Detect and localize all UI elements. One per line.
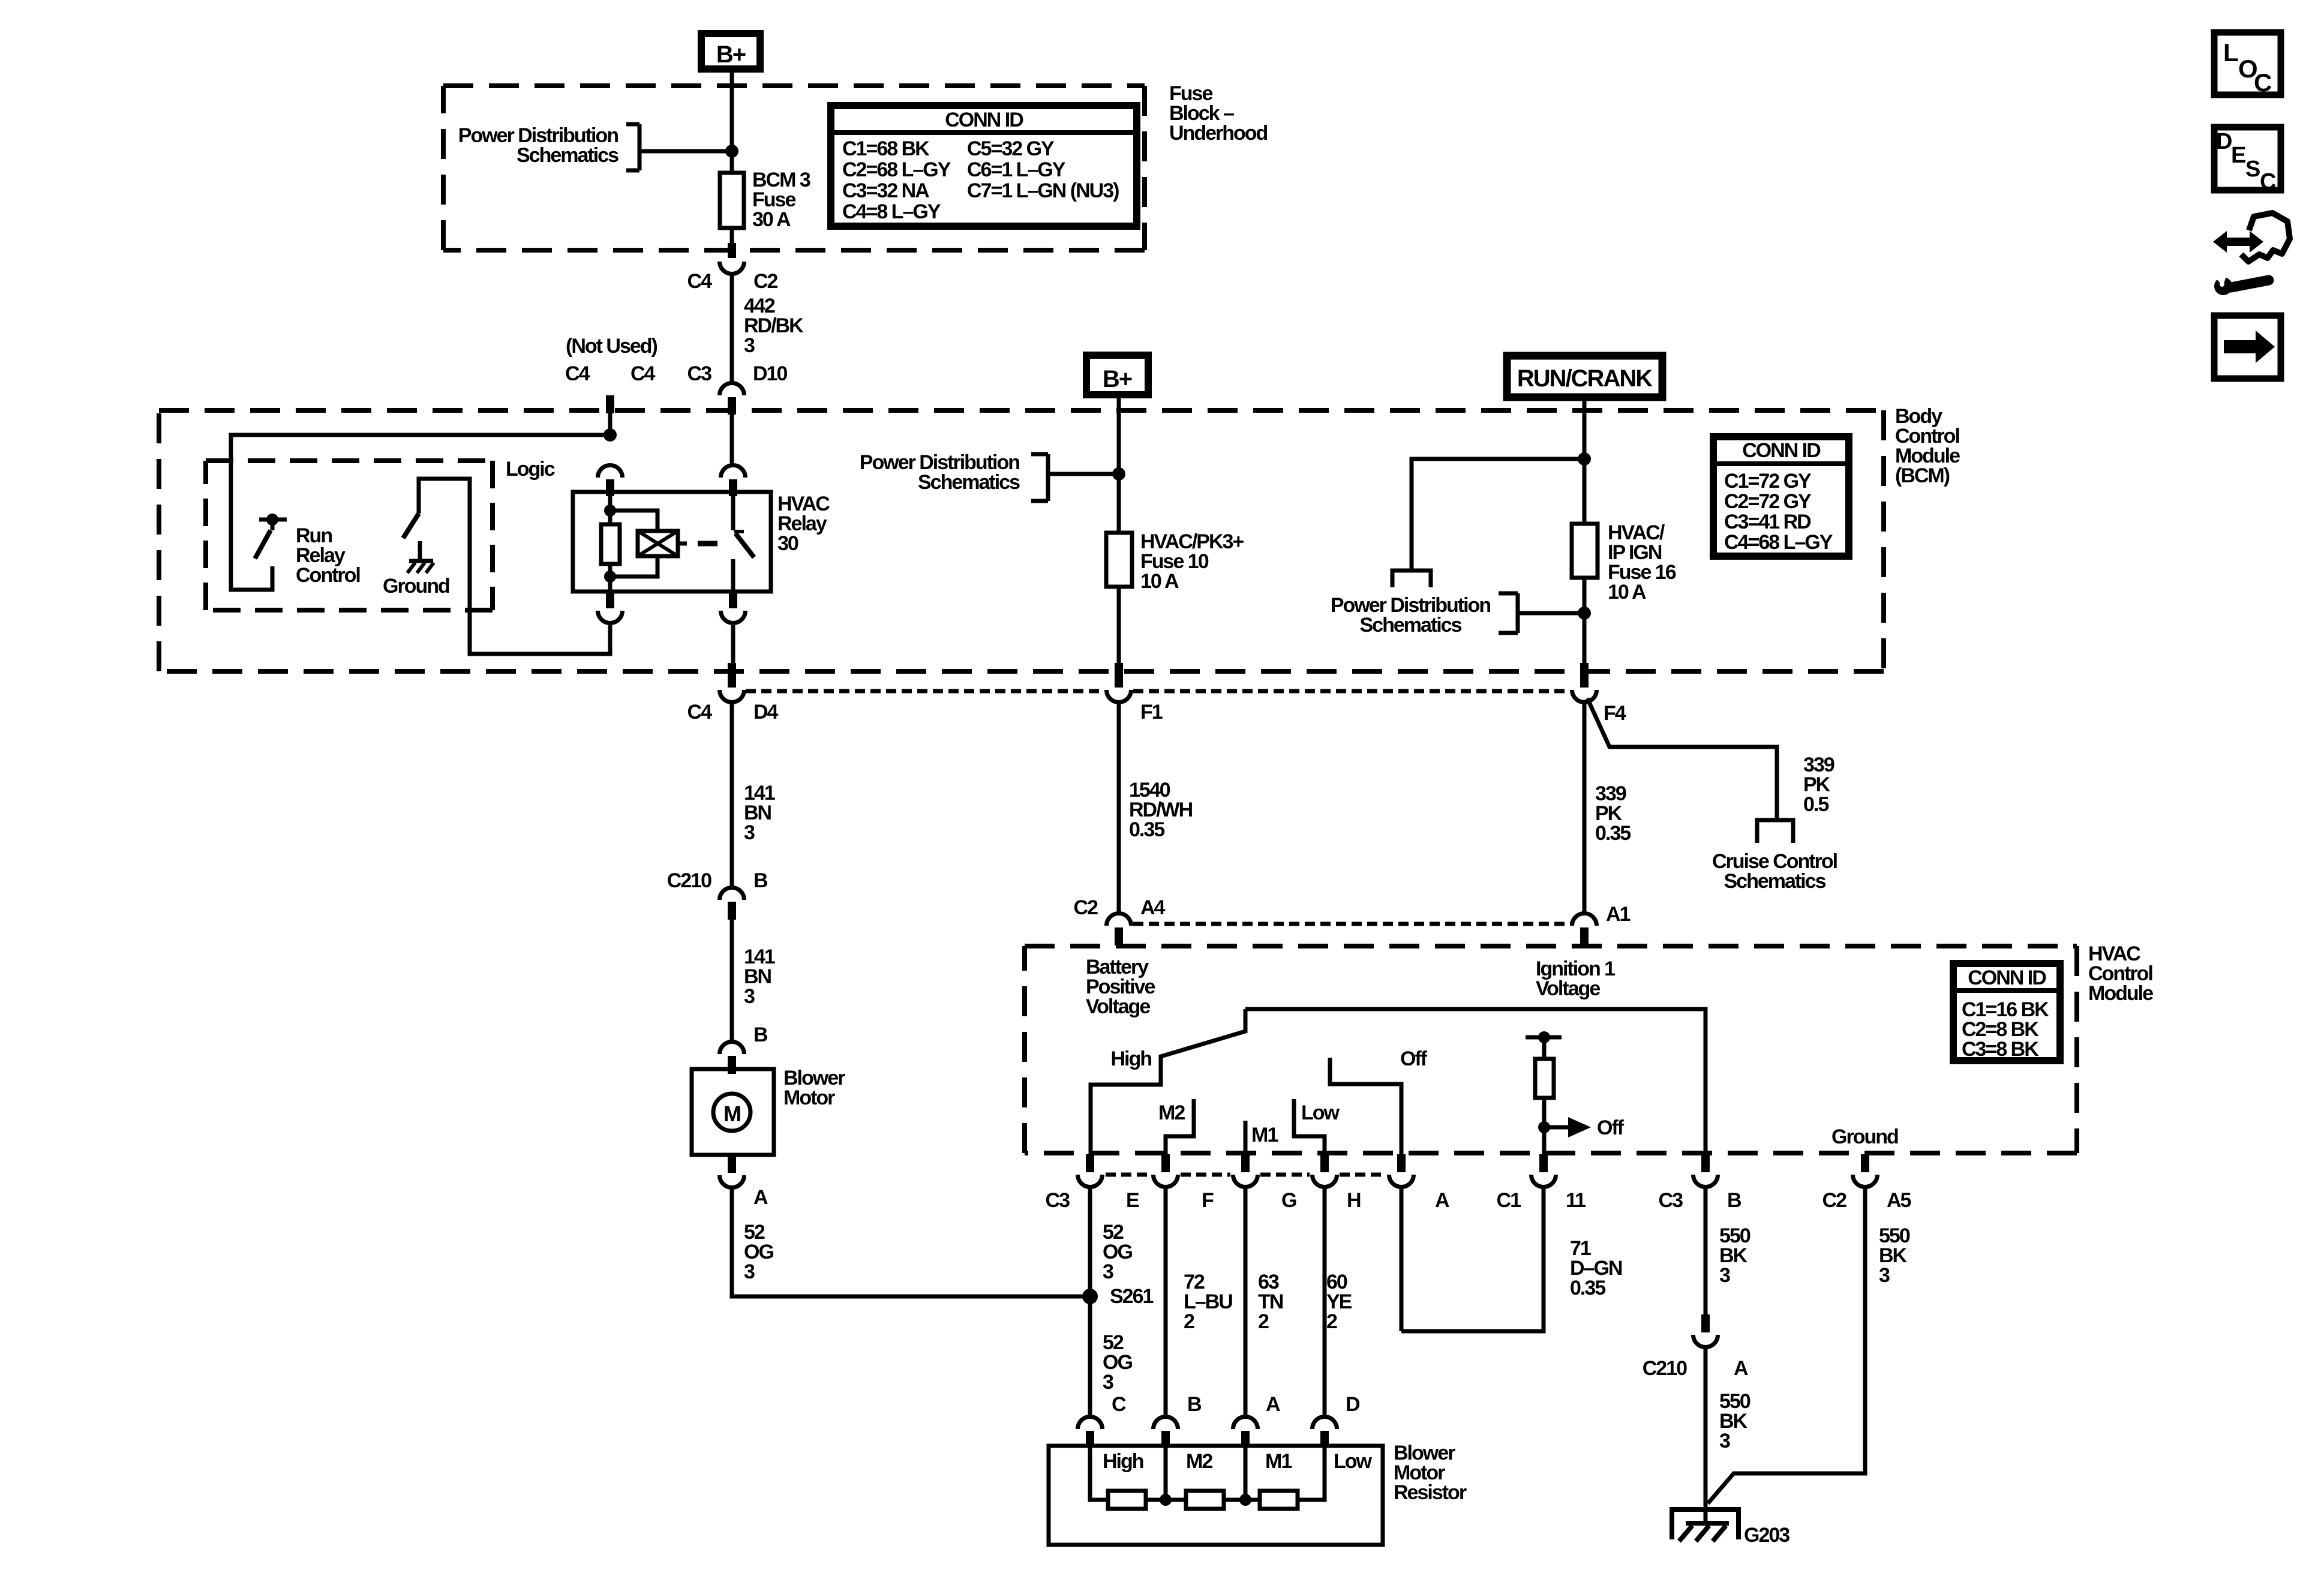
relay HVAC Relay 30: [573, 492, 771, 592]
svg-text:C4=68 L–GY: C4=68 L–GY: [1724, 531, 1833, 554]
svg-text:Schematics: Schematics: [1360, 614, 1462, 637]
svg-text:M1: M1: [1265, 1450, 1292, 1473]
connector C2/A4 (HVAC battery feed): [1107, 913, 1131, 926]
connector C210/A: [1701, 1314, 1710, 1332]
connector C4/C2 (fuse block output): [728, 243, 736, 258]
svg-text:G203: G203: [1744, 1524, 1789, 1547]
svg-text:C4: C4: [630, 362, 656, 385]
connector relay switch bottom: [729, 592, 737, 608]
svg-text:10 A: 10 A: [1140, 570, 1179, 593]
connector C3/D10 (BCM input): [720, 383, 744, 395]
wire D10 into relay switch: [730, 415, 734, 465]
svg-text:30: 30: [777, 532, 798, 555]
svg-text:3: 3: [744, 334, 755, 357]
svg-text:3: 3: [744, 985, 755, 1008]
connector D (blower motor resistor): [1313, 1416, 1337, 1429]
svg-text:3: 3: [744, 821, 755, 844]
connector pin 11 (HVAC): [1539, 1154, 1548, 1172]
contact M2: [1166, 1099, 1194, 1155]
CONN ID table (HVAC): [1953, 963, 2060, 1061]
wire bracket to B+ feed node: [639, 149, 732, 154]
svg-text:(BCM): (BCM): [1895, 464, 1950, 487]
icon service info (arrows and wrench): [2213, 231, 2263, 253]
svg-text:C1=72 GY: C1=72 GY: [1724, 470, 1812, 493]
svg-text:2: 2: [1184, 1310, 1194, 1333]
relay switch contacts: [731, 496, 735, 530]
svg-text:C6=1 L–GY: C6=1 L–GY: [967, 158, 1066, 181]
svg-text:A: A: [1266, 1393, 1280, 1416]
svg-text:RUN/CRANK: RUN/CRANK: [1517, 365, 1653, 392]
wire 550 BK 3 (B to C210): [1704, 1187, 1708, 1316]
HVAC top connector dotted row: [1133, 922, 1571, 926]
connector relay coil top: [598, 465, 623, 478]
svg-text:0.35: 0.35: [1129, 818, 1164, 841]
svg-text:C: C: [2254, 68, 2272, 97]
power symbol B+ (BCM feed): [1086, 355, 1148, 395]
contact Low: [1294, 1099, 1325, 1155]
connector C4/D4 (BCM output): [728, 663, 736, 688]
svg-text:High: High: [1110, 1047, 1151, 1070]
svg-text:A: A: [753, 1186, 768, 1209]
svg-text:C4=8 L–GY: C4=8 L–GY: [842, 200, 941, 223]
svg-text:Off: Off: [1597, 1116, 1625, 1139]
ground G203: [1672, 1509, 1739, 1539]
svg-text:3: 3: [1103, 1260, 1113, 1283]
svg-text:3: 3: [1719, 1264, 1730, 1287]
svg-text:A1: A1: [1606, 903, 1631, 926]
HVAC bottom connector dotted row: [1106, 1173, 1386, 1177]
connector pin A (HVAC): [1397, 1154, 1406, 1172]
svg-text:C: C: [1112, 1393, 1126, 1416]
wire 550 BK 3 (A5 leg): [1708, 1187, 1865, 1503]
wire fuse to F4: [1583, 578, 1587, 665]
CONN ID table (fuse block): [831, 106, 1137, 226]
svg-text:C1=68 BK: C1=68 BK: [842, 137, 930, 160]
svg-text:Low: Low: [1301, 1101, 1340, 1124]
wire 1540 RD/WH 0.35: [1117, 704, 1121, 913]
switch wiper High: [1091, 1009, 1245, 1155]
CONN ID table (BCM): [1713, 437, 1849, 556]
BCM dashed box: [159, 410, 1884, 671]
svg-text:2: 2: [1326, 1310, 1337, 1333]
wire B+ to fuse block: [730, 73, 734, 173]
svg-text:C4: C4: [687, 701, 713, 724]
bracket power distribution (down-open): [1392, 571, 1431, 587]
relay mechanical link dash: [698, 541, 717, 547]
connector pin E (HVAC): [1086, 1154, 1094, 1172]
svg-text:C5=32 GY: C5=32 GY: [967, 137, 1055, 160]
relay coil winding branch: [610, 511, 657, 577]
wire fuse to F1: [1117, 587, 1121, 665]
svg-text:3: 3: [1879, 1264, 1890, 1287]
svg-text:D4: D4: [753, 701, 779, 724]
svg-text:C4: C4: [565, 362, 590, 385]
svg-text:3: 3: [1719, 1430, 1730, 1452]
svg-text:B: B: [1187, 1393, 1202, 1416]
node RUN/CRANK junction: [1578, 452, 1591, 466]
connector A (blower motor): [728, 1155, 736, 1173]
svg-text:(Not Used): (Not Used): [566, 335, 657, 358]
svg-text:C3: C3: [687, 362, 712, 385]
node run relay control junction: [603, 428, 617, 442]
wire fuse to connector C4/C2: [730, 228, 734, 244]
wire not-used stub to run relay control node: [608, 413, 612, 435]
svg-text:Control: Control: [296, 564, 360, 587]
bracket cruise control (down-open): [1757, 820, 1793, 843]
icon LOC box: [2214, 32, 2281, 95]
wire 141 BN 3 to blower motor: [730, 920, 734, 1041]
connector B (blower motor resistor): [1154, 1416, 1178, 1429]
svg-text:H: H: [1347, 1189, 1361, 1212]
svg-text:30 A: 30 A: [752, 208, 791, 231]
node off tap: [1538, 1121, 1550, 1133]
svg-text:G: G: [1281, 1189, 1296, 1212]
svg-text:Schematics: Schematics: [1724, 870, 1826, 893]
icon arrow box: [2214, 316, 2281, 379]
wire 339 PK 0.35: [1583, 704, 1587, 913]
svg-text:C2: C2: [753, 270, 778, 293]
BCM connector interface dotted row: [746, 689, 1570, 694]
svg-text:CONN ID: CONN ID: [1742, 439, 1821, 462]
power symbol RUN/CRANK: [1507, 356, 1662, 397]
svg-text:C2=68 L–GY: C2=68 L–GY: [842, 158, 951, 181]
svg-text:Schematics: Schematics: [517, 144, 618, 167]
svg-text:C3=41 RD: C3=41 RD: [1724, 511, 1811, 533]
blower switch bus wire: [1245, 1009, 1706, 1155]
svg-text:Off: Off: [1400, 1047, 1428, 1070]
svg-text:B: B: [753, 869, 768, 892]
connector relay coil bottom: [606, 592, 614, 608]
fuse BCM 3 Fuse 30 A: [720, 173, 744, 228]
svg-text:Voltage: Voltage: [1086, 995, 1150, 1018]
svg-text:0.35: 0.35: [1595, 822, 1631, 845]
svg-text:High: High: [1103, 1450, 1143, 1473]
connector pin G (HVAC): [1241, 1154, 1250, 1172]
svg-text:0.35: 0.35: [1570, 1277, 1605, 1299]
svg-text:C2=72 GY: C2=72 GY: [1724, 490, 1812, 513]
svg-text:CONN ID: CONN ID: [1968, 966, 2046, 989]
svg-text:A: A: [1734, 1357, 1748, 1380]
svg-text:C4: C4: [687, 270, 713, 293]
connector A (blower motor resistor): [1233, 1416, 1258, 1429]
stub C4 not used: [606, 395, 614, 413]
wire RUN/CRANK into BCM: [1583, 401, 1587, 524]
ground contact (logic): [418, 541, 422, 560]
svg-text:C2: C2: [1074, 896, 1098, 919]
svg-text:C2: C2: [1822, 1189, 1847, 1212]
blower motor: [692, 1069, 774, 1155]
svg-text:A5: A5: [1887, 1189, 1911, 1212]
relay coil symbol box with X: [638, 531, 678, 556]
svg-text:A4: A4: [1140, 896, 1166, 919]
connector pin F (HVAC): [1161, 1154, 1170, 1172]
svg-text:C3=8 BK: C3=8 BK: [1962, 1038, 2039, 1061]
svg-text:3: 3: [744, 1260, 755, 1283]
resistor (HVAC internal): [1535, 1059, 1554, 1098]
connector F1: [1115, 663, 1123, 688]
svg-text:CONN ID: CONN ID: [945, 109, 1023, 131]
connector B (blower motor): [720, 1041, 744, 1054]
HVAC control module dashed box: [1025, 946, 2077, 1153]
svg-text:E: E: [2231, 143, 2245, 168]
svg-text:F: F: [1202, 1189, 1214, 1212]
svg-text:3: 3: [1103, 1371, 1113, 1394]
svg-text:C210: C210: [1643, 1357, 1687, 1380]
svg-text:10 A: 10 A: [1608, 581, 1646, 604]
wire 63 TN 2: [1244, 1187, 1248, 1415]
svg-text:M: M: [723, 1101, 740, 1126]
fuse block - underhood dashed box: [443, 86, 1145, 250]
power symbol B+ (fuse block feed): [701, 34, 760, 69]
svg-text:Voltage: Voltage: [1536, 977, 1600, 1000]
blower motor resistor box: [1049, 1446, 1383, 1545]
wire to power distribution bracket (down-leg): [1412, 459, 1584, 571]
wire 52 OG 3 to splice: [732, 1190, 1086, 1296]
resistor element M2-M1: [1186, 1491, 1224, 1509]
svg-text:2: 2: [1258, 1310, 1269, 1333]
svg-text:C3: C3: [1659, 1189, 1683, 1212]
splice S261: [1082, 1289, 1098, 1304]
svg-text:D: D: [2216, 129, 2232, 154]
svg-text:F4: F4: [1604, 702, 1626, 725]
bracket (BCM B+): [1031, 454, 1048, 501]
wire 60 YE 2: [1323, 1187, 1327, 1415]
node fuse output junction: [1578, 607, 1591, 620]
connector pin A5 (HVAC): [1861, 1154, 1869, 1172]
resistor leg T-bar: [1526, 1035, 1562, 1040]
svg-text:B: B: [1727, 1189, 1742, 1212]
bracket (RUN/CRANK side): [1499, 593, 1518, 633]
fuse HVAC/IP IGN Fuse 16 10A: [1572, 524, 1598, 578]
connector pin B (HVAC): [1701, 1154, 1710, 1172]
svg-text:M2: M2: [1158, 1101, 1185, 1124]
wire 72 L-BU 2: [1164, 1187, 1168, 1415]
svg-text:M1: M1: [1251, 1124, 1278, 1146]
svg-text:Underhood: Underhood: [1169, 122, 1268, 145]
svg-text:B+: B+: [1103, 366, 1132, 392]
arrow Off: [1544, 1125, 1568, 1130]
fuse HVAC/PK3+ Fuse 10 10A: [1106, 533, 1132, 587]
logic dashed box: [206, 461, 493, 610]
wire B+ into BCM: [1117, 398, 1121, 533]
resistor element High-M2: [1108, 1491, 1146, 1509]
svg-text:M2: M2: [1186, 1450, 1212, 1473]
svg-text:S261: S261: [1110, 1285, 1153, 1308]
svg-text:0.5: 0.5: [1803, 793, 1828, 816]
wire relay switch to D4: [732, 625, 733, 665]
wire 442 RD/BK 3: [730, 274, 734, 383]
connector relay switch top: [721, 465, 746, 478]
svg-text:A: A: [1435, 1189, 1449, 1212]
bracket to power distribution schematics: [626, 124, 639, 170]
svg-text:Schematics: Schematics: [918, 471, 1020, 494]
svg-text:Resistor: Resistor: [1394, 1481, 1467, 1504]
resistor internal wiring: [1090, 1448, 1108, 1500]
wire D4 to C210 141 BN 3: [730, 704, 734, 887]
resistor element M1-Low: [1260, 1491, 1298, 1509]
connector F4: [1580, 663, 1589, 688]
svg-text:B+: B+: [716, 41, 746, 68]
connector pin H (HVAC): [1320, 1154, 1329, 1172]
svg-text:S: S: [2245, 157, 2260, 182]
svg-text:L: L: [2223, 38, 2238, 67]
svg-text:C: C: [2260, 169, 2276, 194]
svg-text:C7=1 L–GN (NU3): C7=1 L–GN (NU3): [967, 179, 1119, 202]
svg-text:C3=32 NA: C3=32 NA: [842, 179, 929, 202]
svg-text:C3: C3: [1046, 1189, 1070, 1212]
svg-text:Logic: Logic: [506, 458, 555, 481]
svg-text:Module: Module: [2088, 982, 2153, 1005]
switch Run Relay Control: [259, 520, 287, 530]
wire 550 BK 3 to ground: [1704, 1347, 1708, 1524]
svg-text:E: E: [1126, 1189, 1139, 1212]
wire 71 D-GN 0.35: [1401, 1187, 1544, 1331]
contact M1: [1244, 1121, 1248, 1155]
svg-text:D10: D10: [753, 362, 787, 385]
wire 52 OG 3 (E to splice): [1088, 1187, 1092, 1415]
contact Off: [1330, 1058, 1401, 1155]
switch Ground (logic): [419, 479, 610, 654]
connector C (blower motor resistor): [1078, 1416, 1103, 1429]
icon DESC box: [2214, 127, 2281, 190]
svg-text:Ground: Ground: [383, 575, 449, 598]
svg-text:Low: Low: [1334, 1450, 1373, 1473]
node junction on B+ feed: [725, 145, 738, 158]
node resistor taps: [1160, 1494, 1172, 1506]
svg-text:C210: C210: [667, 869, 711, 892]
svg-text:C1: C1: [1497, 1189, 1521, 1212]
wire run relay control to logic switch: [231, 435, 610, 590]
svg-text:B: B: [753, 1023, 768, 1046]
svg-text:Motor: Motor: [783, 1086, 835, 1109]
svg-text:D: D: [1346, 1393, 1360, 1416]
node B+ feed junction: [1112, 467, 1125, 481]
svg-text:11: 11: [1566, 1189, 1586, 1212]
branch wire 339 PK 0.5 to cruise control: [1587, 698, 1777, 820]
relay coil resistor: [608, 496, 612, 524]
connector C1/A1 (HVAC ignition feed): [1572, 913, 1597, 926]
connector C210/B: [720, 888, 744, 900]
svg-text:F1: F1: [1140, 701, 1163, 724]
svg-text:Ground: Ground: [1831, 1125, 1898, 1148]
